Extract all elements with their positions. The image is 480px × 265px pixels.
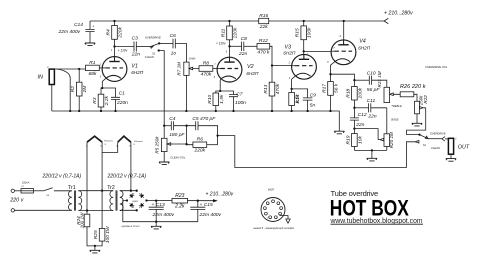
svg-text:100 1W: 100 1W <box>80 212 85 228</box>
ground PSU <box>151 226 161 229</box>
potentiometer R22 overdrive vol <box>415 101 420 114</box>
wire R17 top stem <box>330 74 332 81</box>
wire terminal N to Tr1 <box>15 209 72 211</box>
wire R18 top stem <box>353 80 355 86</box>
junction R13 ground bus <box>271 110 273 112</box>
transformer Tr2 core <box>116 190 117 210</box>
svg-text:BASS: BASS <box>391 117 398 121</box>
resistor R12 <box>257 44 270 50</box>
svg-text:+ C15: + C15 <box>200 202 213 208</box>
junction V4 cathode node <box>329 73 331 75</box>
potentiometer R7 gain <box>184 62 189 75</box>
wire PSU ground stem <box>155 222 157 227</box>
junction R13 top <box>271 64 273 66</box>
junction clean feed tap <box>216 134 218 136</box>
junction bridge bottom corner <box>136 209 138 211</box>
wire R19 R20 bottom <box>354 149 386 151</box>
diode D2 <box>138 202 145 209</box>
wire R12 to V3 grid <box>270 46 292 65</box>
wire to C7 <box>220 91 233 95</box>
svg-text:R6: R6 <box>197 137 204 143</box>
wiper arrow R5 <box>167 143 187 146</box>
wire R13 bottom stem <box>271 96 273 111</box>
junction bridge top corner <box>136 190 138 192</box>
capacitor C12 <box>350 118 359 120</box>
wire C8 to R12 <box>244 45 257 47</box>
resistor R3 <box>98 94 104 107</box>
junction R2 top <box>78 68 80 70</box>
svg-text:R5 250k: R5 250k <box>155 136 160 154</box>
wire heater U link <box>102 142 118 152</box>
junction R14 ground bus <box>290 110 292 112</box>
diode D1 <box>138 192 145 199</box>
junction heater leg B <box>130 190 132 192</box>
wire R13 top stem <box>271 66 273 83</box>
ground below R22 <box>412 123 422 126</box>
svg-text:R16: R16 <box>259 13 268 19</box>
tube socket bottom view <box>261 198 285 222</box>
wire R11 to V2 plate node <box>229 40 231 47</box>
wiper arrow R22 <box>420 107 426 110</box>
svg-text:C11: C11 <box>367 98 376 104</box>
wire to C10 <box>354 79 369 81</box>
resistor R13 <box>269 82 275 96</box>
wire R21 bottom to R20 top <box>386 108 388 134</box>
svg-text:22n: 22n <box>238 51 247 57</box>
svg-text:V1: V1 <box>131 63 138 69</box>
wire C15 top stem <box>197 201 199 208</box>
wire bus end drop to ground <box>331 111 339 131</box>
svg-text:220k: 220k <box>193 148 205 154</box>
svg-text:6Н2П: 6Н2П <box>283 50 296 55</box>
socket arrow pin 9 <box>280 216 291 224</box>
triode V4 <box>331 40 356 65</box>
svg-text:22n: 22n <box>355 122 364 128</box>
svg-text:R10: R10 <box>207 94 213 103</box>
wire Tr2 sec bottom to bridge <box>120 209 137 211</box>
junction V1 plate node <box>113 45 115 47</box>
wire S1 clean down <box>159 51 165 126</box>
wire V2 cathode lead <box>219 79 222 91</box>
ground main bus <box>334 131 344 134</box>
contact S1 clean throw <box>158 49 160 51</box>
svg-text:IN: IN <box>38 75 43 81</box>
junction R18 top node <box>353 79 355 81</box>
svg-text:R11: R11 <box>221 28 227 37</box>
svg-text:+ 110v: + 110v <box>216 42 226 46</box>
svg-text:6Н2П: 6Н2П <box>131 70 144 75</box>
svg-text:R23: R23 <box>175 193 184 199</box>
wire C9 bottom stem <box>307 100 309 111</box>
wire cathode node to R18 node <box>331 74 355 80</box>
svg-text:C9: C9 <box>310 93 317 99</box>
wire jack sleeve down <box>51 85 53 112</box>
svg-text:2.2k: 2.2k <box>174 203 185 209</box>
svg-text:OVERDRIVE VOL: OVERDRIVE VOL <box>425 65 447 69</box>
resistor R2 <box>76 82 82 96</box>
wire V4 cathode lead <box>331 62 335 75</box>
wire C6 to gain pot <box>175 43 186 62</box>
wire C7 bottom stem <box>233 97 235 111</box>
triode V3 <box>292 54 317 79</box>
svg-text:CLEAN: CLEAN <box>431 146 440 150</box>
wire R7 bottom to ground bus <box>185 75 187 111</box>
svg-text:Filament: Filament <box>104 139 113 142</box>
junction clean node C4 <box>163 125 165 127</box>
capacitor C6 <box>173 39 175 49</box>
junction C7 ground bus <box>232 110 234 112</box>
svg-text:R17: R17 <box>322 84 328 93</box>
wire heater midpoint down to R25 <box>101 152 103 228</box>
svg-text:220k: 220k <box>233 27 239 39</box>
junction V2 plate node <box>228 45 230 47</box>
svg-text:6Н2П: 6Н2П <box>358 46 371 51</box>
svg-text:КЦ405: КЦ405 <box>132 200 139 203</box>
capacitor C13 <box>149 207 164 209</box>
contact S2 overdrive throw <box>418 133 420 135</box>
svg-text:6Н2П: 6Н2П <box>246 71 259 76</box>
wire to R3 <box>101 88 102 94</box>
svg-text:6Н2П: 6Н2П <box>268 189 274 192</box>
svg-text:R20 1M: R20 1M <box>389 132 394 148</box>
wire R8 to V2 grid <box>213 68 217 70</box>
wire to C11 <box>354 107 368 109</box>
wire V2 plate stem <box>229 46 231 62</box>
capacitor C3 <box>134 42 136 52</box>
resistor R23 <box>172 198 188 203</box>
junction R7 ground bus <box>185 110 187 112</box>
wire V1 cathode lead <box>102 78 106 88</box>
capacitor C15 <box>190 207 205 209</box>
svg-text:470 k: 470 k <box>257 49 270 55</box>
svg-text:C7: C7 <box>236 91 243 97</box>
svg-text:R2: R2 <box>70 86 76 93</box>
svg-text:220/12 v (0,7-1A): 220/12 v (0,7-1A) <box>107 174 147 180</box>
wire C14 bottom stem <box>89 32 91 43</box>
wire R22 wiper to S2 <box>407 108 426 135</box>
junction R5 wiper R6 <box>185 143 187 145</box>
svg-text:OVERDRIVE: OVERDRIVE <box>430 131 446 135</box>
resistor R18 <box>352 87 358 101</box>
connector arrow PSU out <box>213 199 218 202</box>
svg-text:180 pF: 180 pF <box>169 132 185 138</box>
svg-text:+ 210...280v: + 210...280v <box>206 191 234 197</box>
wire R14 bottom stem <box>291 106 293 112</box>
wire R15 to V3 plate node <box>303 40 305 52</box>
junction R24 heater leg A <box>86 209 88 211</box>
junction heater mid on 12v wire <box>101 190 103 192</box>
wire R19 bottom stem <box>353 147 355 151</box>
wire R20 bottom stem <box>386 146 388 150</box>
svg-text:CLEAN: CLEAN <box>145 55 154 59</box>
svg-text:100k: 100k <box>357 87 363 98</box>
svg-text:R12: R12 <box>259 38 268 44</box>
wire fuse to switch <box>34 190 44 192</box>
svg-text:220n: 220n <box>116 100 128 106</box>
svg-text:10k: 10k <box>357 136 363 144</box>
input jack IN <box>49 69 54 84</box>
wire switch to Tr1 <box>54 190 72 192</box>
svg-text:R15: R15 <box>295 28 301 37</box>
svg-text:C8: C8 <box>241 36 248 42</box>
svg-text:GAIN: GAIN <box>189 56 196 60</box>
wire heater leg A down <box>86 142 88 210</box>
transformer Tr1 core <box>75 191 76 211</box>
wire S1 to C6 <box>159 42 173 44</box>
capacitor C5 <box>196 121 198 130</box>
wire C11 to R21 bottom line <box>371 107 387 109</box>
fuse F1 <box>21 189 34 193</box>
wire C12 bottom stem <box>353 120 355 129</box>
svg-text:R26 220 k: R26 220 k <box>400 84 427 90</box>
wire C4 to C5 <box>174 125 196 127</box>
wire main ground bus <box>52 110 331 112</box>
wire B+ from bridge <box>147 200 214 202</box>
wire to C9 <box>292 89 308 98</box>
capacitor C8 <box>242 42 244 51</box>
ground below R5 <box>159 162 169 165</box>
svg-text:C14: C14 <box>74 22 83 28</box>
svg-text:TREBLE: TREBLE <box>391 104 402 108</box>
svg-text:+: + <box>92 24 94 28</box>
resistor R25 <box>99 229 105 242</box>
wire C5 to right node <box>198 126 218 145</box>
junction C11 tap <box>353 107 355 109</box>
resistor R19 <box>352 134 358 147</box>
svg-text:C3: C3 <box>132 36 139 42</box>
wire V1 plate stem <box>114 47 116 62</box>
wire left node down to R6 <box>187 126 193 145</box>
svg-text:220k: 220k <box>118 27 124 39</box>
junction V4 plate rail <box>343 20 345 22</box>
junction bridge right corner <box>145 199 147 201</box>
wire R24 bottom <box>87 227 95 246</box>
junction V3 cathode node <box>290 88 292 90</box>
wire 12v top <box>78 190 113 192</box>
svg-text:470k: 470k <box>201 72 212 78</box>
transformer Tr2 primary <box>110 191 113 211</box>
svg-text:470k: 470k <box>275 83 281 94</box>
capacitor C9 <box>303 98 313 100</box>
svg-text:R4: R4 <box>106 29 112 36</box>
wiper arrow R20 <box>378 138 384 141</box>
wiper arrow R7 <box>189 67 199 70</box>
connector arrow B+ rail end <box>384 18 388 23</box>
svg-text:+ 110v: + 110v <box>118 48 128 52</box>
wire S2 common to out connector <box>428 138 442 140</box>
junction heater ground <box>94 245 96 247</box>
junction C13 top <box>155 200 157 202</box>
svg-text:1M: 1M <box>82 85 88 93</box>
svg-text:R25: R25 <box>93 230 99 239</box>
svg-text:22m 400v: 22m 400v <box>58 29 81 35</box>
svg-text:V2: V2 <box>247 64 254 70</box>
junction R19 top node <box>353 127 355 129</box>
junction C9 ground bus <box>306 110 308 112</box>
junction bridge left corner <box>126 199 128 201</box>
wire tone ground stem <box>371 150 373 158</box>
junction shunt to ground bus <box>69 110 71 112</box>
transformer Tr1 secondary <box>78 191 81 211</box>
capacitor C1 <box>111 97 120 99</box>
switch S3 mains <box>44 188 53 191</box>
wire R2 top stem <box>78 69 80 82</box>
svg-text:1,5k: 1,5k <box>295 94 301 104</box>
svg-text:R21 1M: R21 1M <box>377 71 382 87</box>
heater symbol V3 V4 <box>118 136 131 142</box>
wire V3 plate to V4 grid <box>304 50 331 52</box>
svg-text:220/12 v (0,7-1A): 220/12 v (0,7-1A) <box>42 174 82 180</box>
underline website <box>331 223 424 225</box>
svg-text:C6: C6 <box>170 33 177 39</box>
svg-text:100k: 100k <box>307 27 313 38</box>
svg-text:C1: C1 <box>119 90 126 96</box>
junction PSU ground <box>155 221 157 223</box>
svg-text:68k: 68k <box>88 71 96 77</box>
wire C10 to R21 top <box>372 80 387 87</box>
wiper arrow R21 <box>390 93 401 96</box>
wire R17 bottom stem <box>330 95 332 111</box>
resistor R16 <box>259 18 269 23</box>
svg-text:1o: 1o <box>171 51 177 57</box>
svg-text:Filament: Filament <box>134 140 143 143</box>
wire jack tip to R1 <box>54 68 85 70</box>
transformer Tr2 secondary <box>120 191 123 211</box>
wire to C1 <box>102 88 115 97</box>
terminal mains L <box>11 189 14 192</box>
potentiometer R5 clean vol <box>161 138 167 151</box>
svg-text:R7 1M: R7 1M <box>177 62 182 76</box>
svg-text:100n: 100n <box>235 100 246 106</box>
terminal mains N <box>11 209 14 212</box>
switch S2 arm <box>420 135 429 139</box>
svg-text:100mA: 100mA <box>22 181 30 184</box>
capacitor C4 <box>171 121 173 130</box>
ground below OUT jack <box>446 159 456 162</box>
svg-text:КД243А-Ж ФР207: КД243А-Ж ФР207 <box>122 225 141 228</box>
triode V2 <box>217 57 242 82</box>
svg-text:Tr1: Tr1 <box>68 185 76 191</box>
wire to OUT jack <box>445 138 448 140</box>
capacitor C10 <box>369 76 371 85</box>
wire B+ rail left section <box>90 20 259 22</box>
wire V3 plate stem <box>303 51 305 59</box>
junction C1 ground bus <box>114 110 116 112</box>
wire to R20 wiper <box>354 129 378 140</box>
capacitor C7 <box>229 95 238 97</box>
svg-text:OUT: OUT <box>458 144 470 150</box>
junction V2 cathode node <box>219 90 221 92</box>
resistor R26 <box>400 92 414 97</box>
svg-text:Tr2: Tr2 <box>107 185 115 191</box>
junction tone ground <box>371 149 373 151</box>
switch S1 arm <box>150 43 159 48</box>
svg-text:R1: R1 <box>89 60 96 66</box>
resistor R17 <box>328 82 334 96</box>
svg-text:22m 400v: 22m 400v <box>199 212 222 218</box>
svg-text:C5 470 pF: C5 470 pF <box>192 116 216 122</box>
contact S2 clean throw <box>415 141 419 144</box>
wire heater ground stem <box>94 246 96 250</box>
wire to R10 <box>216 91 220 93</box>
wire B+ rail right section <box>269 20 384 22</box>
wire C13 top stem <box>155 201 157 208</box>
svg-text:R18: R18 <box>345 88 351 97</box>
wire C3 to S1 arm <box>136 46 150 48</box>
svg-text:C12: C12 <box>358 112 367 118</box>
wire R15 top stem <box>303 21 305 26</box>
wire R1 to V1 grid <box>99 67 102 69</box>
svg-text:R19: R19 <box>345 135 351 144</box>
svg-text:22k: 22k <box>259 24 268 30</box>
svg-text:www.tubehotbox.blogspot.com: www.tubehotbox.blogspot.com <box>330 216 423 225</box>
junction R11 rail <box>228 20 230 22</box>
svg-text:22n: 22n <box>367 113 376 119</box>
wire C15 bottom stem <box>197 209 199 221</box>
wire R6 right <box>207 144 218 146</box>
junction C15 top <box>197 200 199 202</box>
junction V1 cathode node <box>101 87 103 89</box>
svg-text:+ C13: + C13 <box>152 202 165 208</box>
wire C13 bottom stem <box>155 209 157 221</box>
wire R3 bottom stem <box>100 107 102 111</box>
svg-text:OVERDRIVE: OVERDRIVE <box>145 36 161 40</box>
junction R10 ground bus <box>215 110 217 112</box>
potentiometer R20 <box>384 134 390 147</box>
junction R4 rail <box>113 20 115 22</box>
svg-text:5n: 5n <box>310 102 316 108</box>
wire to C4 <box>164 125 171 127</box>
junction R3 ground bus <box>100 110 102 112</box>
wire R24 top stem <box>86 211 88 215</box>
wire R10 bottom stem <box>215 106 217 112</box>
wire R25 bottom <box>95 241 102 246</box>
wire OUT jack ground stem <box>450 154 452 158</box>
wire R4 to V1 plate node <box>114 39 116 46</box>
junction C4 C5 node <box>185 125 187 127</box>
resistor R24 <box>84 214 90 227</box>
wire R26 to R22 top <box>414 94 417 101</box>
ground heater balance <box>90 250 100 253</box>
heater symbol V1 V2 <box>87 136 102 142</box>
svg-text:R3: R3 <box>92 97 98 104</box>
wire R19 top stem <box>353 129 355 134</box>
contact S1 overdrive throw <box>158 42 160 44</box>
svg-text:вывод 9 - экранирующий штифт: вывод 9 - экранирующий штифт <box>254 226 295 230</box>
wire R4 top stem <box>114 21 116 26</box>
wire R22 ground stem <box>416 114 418 124</box>
svg-text:22n: 22n <box>131 52 140 58</box>
resistor R6 <box>193 142 207 147</box>
connector arrow OUT <box>442 137 445 142</box>
wire V4 plate stem from rail <box>343 21 345 45</box>
wire heater leg B down <box>130 142 132 191</box>
svg-text:C4: C4 <box>169 116 176 122</box>
wire C14 top stem <box>89 21 91 29</box>
ground tone network <box>367 158 377 161</box>
wire PSU ground bus <box>123 201 198 222</box>
wire V3 cathode lead <box>292 76 296 89</box>
svg-text:C10: C10 <box>367 70 376 76</box>
junction R17 ground bus <box>329 110 331 112</box>
svg-text:220 v: 220 v <box>9 198 23 204</box>
wire R2 bottom stem <box>78 96 80 111</box>
potentiometer R21 tone <box>384 87 390 102</box>
diode D3 <box>128 192 135 199</box>
diode D4 <box>128 202 135 209</box>
wire C1 bottom stem <box>115 100 117 112</box>
ground below C14 <box>85 43 95 46</box>
